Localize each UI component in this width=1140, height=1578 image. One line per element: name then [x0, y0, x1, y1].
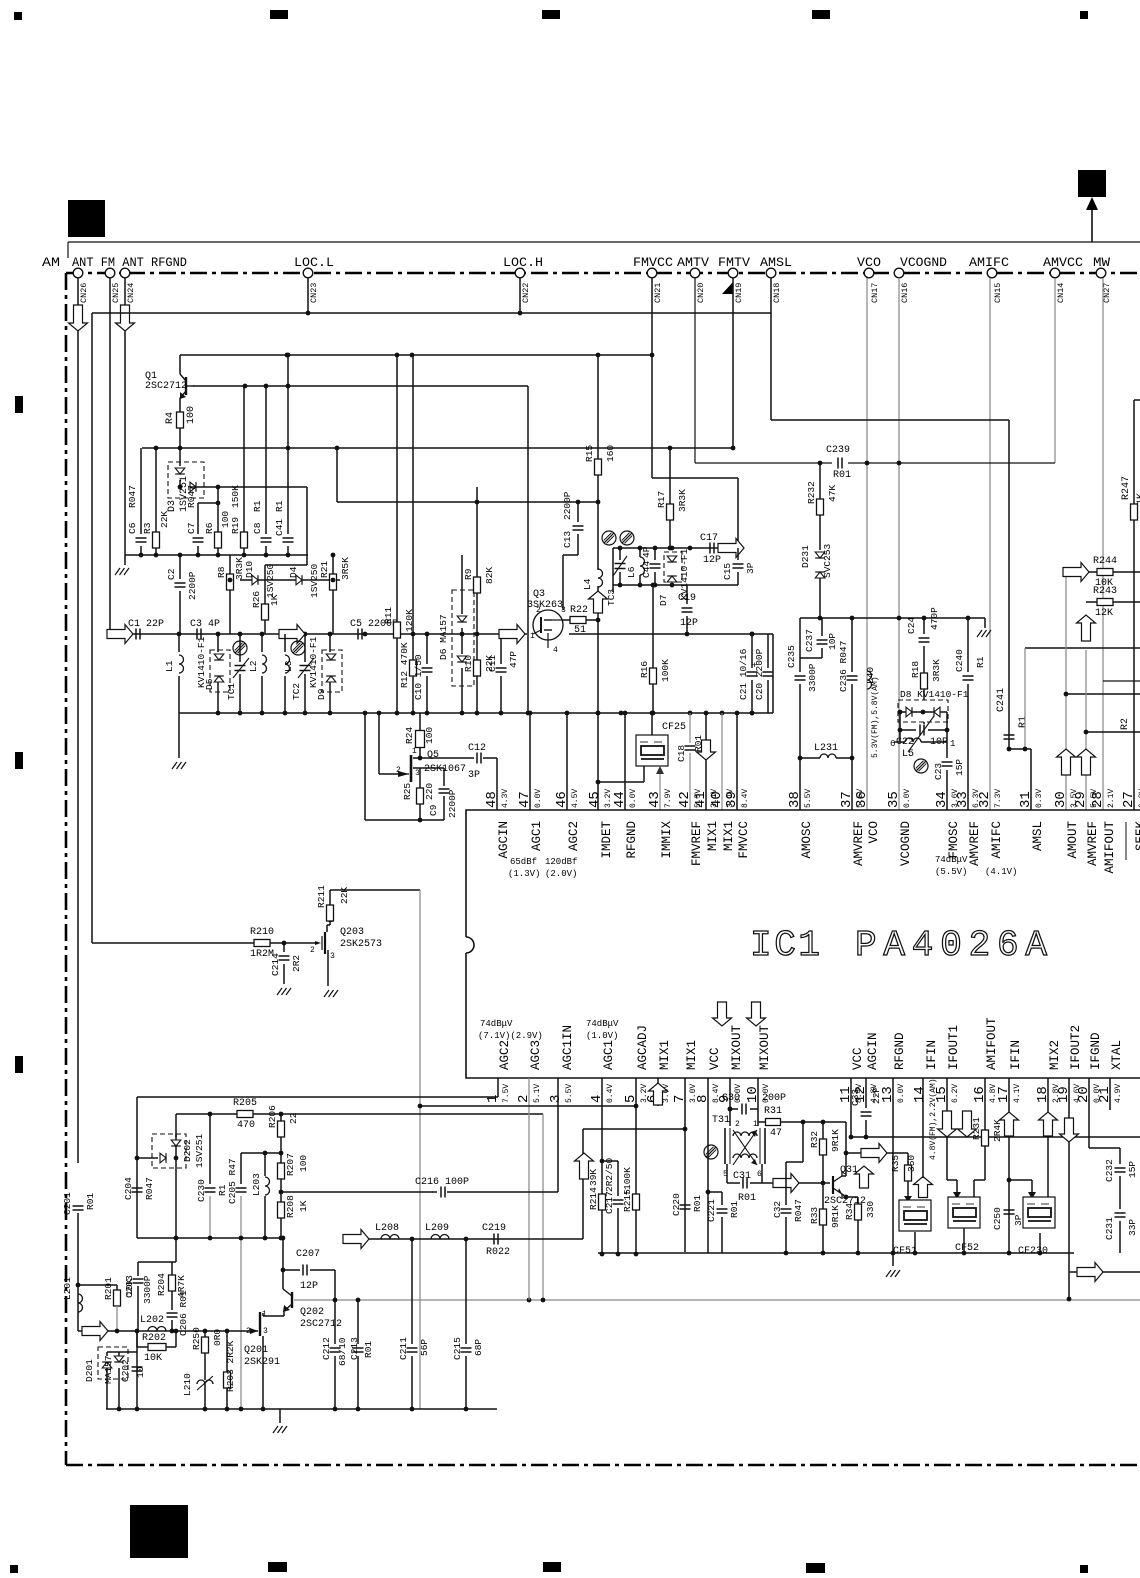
AM osc bus y618 [800, 617, 985, 619]
capacitor C41 [287, 355, 289, 534]
wire x365 down [364, 713, 366, 820]
svg-text:R21: R21 [319, 561, 330, 578]
svg-text:1K: 1K [298, 1200, 309, 1212]
wire pin40 [721, 713, 723, 810]
svg-text:R19: R19 [230, 517, 241, 534]
connector CN21 [647, 268, 657, 278]
svg-text:22P: 22P [871, 1087, 882, 1104]
svg-text:3: 3 [263, 1327, 268, 1336]
wire y681 right [1103, 680, 1140, 682]
svg-text:L231: L231 [814, 743, 838, 754]
svg-text:IFOUT1: IFOUT1 [947, 1025, 961, 1070]
svg-text:5.3V(FM),5.8V(AM): 5.3V(FM),5.8V(AM) [871, 676, 880, 758]
inductor L210 [197, 1380, 213, 1384]
wire pin8 down [707, 1078, 709, 1253]
connector CN15 [987, 268, 997, 278]
page locator square top-right [1078, 170, 1106, 197]
capacitor C5 2200P [357, 629, 359, 640]
svg-text:C232: C232 [1104, 1159, 1115, 1182]
resistor R202 10K [136, 1331, 138, 1347]
wire y782 [598, 781, 644, 783]
resistor R211 22K [326, 925, 328, 932]
resistor R34 330 [857, 1197, 859, 1204]
svg-text:R1: R1 [252, 500, 263, 512]
svg-text:R203 2R2K: R203 2R2K [225, 1340, 236, 1392]
wire CN19 down [732, 278, 734, 448]
svg-text:R16: R16 [639, 661, 650, 678]
svg-text:C17: C17 [700, 533, 718, 544]
svg-text:74dBμV: 74dBμV [935, 855, 968, 865]
Q31 collector [842, 1175, 846, 1177]
svg-text:C12: C12 [468, 743, 486, 754]
connector CN24 [120, 268, 130, 278]
registration mark left 3 [15, 1056, 23, 1073]
resistor R22 51 [563, 619, 570, 621]
svg-text:4: 4 [553, 646, 558, 655]
T31 bottom pins [726, 1164, 728, 1183]
resistor R16 100K [652, 585, 654, 668]
tie wire y1262 [138, 1261, 176, 1263]
trimmer arrow through C22 [908, 716, 934, 752]
wire CN25 down to FM input [109, 278, 111, 634]
svg-text:FMOSC: FMOSC [947, 821, 961, 859]
capacitor C236 R047 [851, 618, 853, 672]
svg-text:3: 3 [330, 952, 335, 961]
svg-text:28: 28 [1090, 791, 1106, 808]
filter CF52 [948, 1197, 980, 1228]
CF52 bottom stub [963, 1228, 965, 1253]
CF25 out [643, 766, 645, 782]
svg-text:(1.0V): (1.0V) [586, 1031, 618, 1041]
svg-text:C3 4P: C3 4P [190, 619, 220, 630]
svg-text:CN22: CN22 [521, 283, 531, 303]
filter CF51 [899, 1200, 931, 1231]
flow arrow on CN24 wire [116, 305, 135, 331]
dash-dot border bottom [66, 1464, 1140, 1467]
svg-text:C9: C9 [428, 804, 439, 816]
inductor L208 [381, 1235, 399, 1240]
svg-text:34: 34 [934, 791, 950, 808]
flow arrow C17 out [718, 539, 744, 558]
IC1 box [466, 810, 1140, 1078]
svg-text:(2.0V): (2.0V) [545, 869, 577, 879]
no-connect mark 2 [291, 641, 305, 655]
svg-text:VCC: VCC [708, 1047, 722, 1070]
resistor R206 22 [280, 1114, 282, 1121]
svg-text:12P: 12P [300, 1281, 318, 1292]
svg-text:R01: R01 [833, 470, 851, 481]
page locator square bottom-left [130, 1505, 188, 1558]
svg-text:2: 2 [735, 1120, 740, 1129]
svg-text:XTAL: XTAL [1110, 1040, 1124, 1070]
wire AM ant C201 [73, 1205, 84, 1207]
capacitor C215 68P [465, 1239, 467, 1344]
svg-text:CN20: CN20 [696, 283, 706, 303]
resistor R215 100K [633, 1194, 640, 1210]
wire CN22 down [519, 278, 521, 313]
filter CF25 [651, 713, 653, 735]
svg-text:CN23: CN23 [309, 283, 319, 303]
capacitor C207 12P [282, 1238, 284, 1270]
svg-text:C2: C2 [166, 568, 177, 580]
svg-text:3R3K: 3R3K [677, 489, 688, 512]
svg-text:6.2V: 6.2V [951, 1084, 960, 1103]
wire y1285 [78, 1284, 117, 1286]
svg-text:1SV251: 1SV251 [194, 1133, 205, 1168]
svg-text:31: 31 [1018, 791, 1034, 808]
svg-text:74dBμV: 74dBμV [480, 1019, 513, 1029]
diode D10 1SV250 [252, 575, 258, 585]
svg-text:9R1K: 9R1K [830, 1205, 841, 1228]
svg-text:CN17: CN17 [870, 283, 880, 303]
svg-text:(7.1V)(2.9V): (7.1V)(2.9V) [478, 1031, 543, 1041]
svg-text:C30: C30 [722, 1093, 740, 1104]
svg-text:R047: R047 [127, 485, 138, 508]
resistor R203 2R2K [226, 1331, 228, 1372]
svg-text:MIX1: MIX1 [658, 1040, 672, 1070]
svg-text:10P: 10P [827, 633, 838, 650]
svg-text:22K: 22K [339, 887, 350, 904]
svg-text:46: 46 [554, 791, 570, 808]
svg-text:FMVREF: FMVREF [690, 821, 704, 866]
svg-text:D9: D9 [316, 688, 327, 700]
resistor R201 10K [116, 1285, 118, 1290]
resistor R17 [669, 448, 671, 504]
capacitor C214 2R2 [283, 943, 285, 952]
svg-text:470P: 470P [929, 607, 940, 630]
svg-text:R201: R201 [103, 1277, 114, 1300]
svg-text:MIX1: MIX1 [706, 821, 720, 851]
wire x176 down [175, 1114, 177, 1262]
svg-text:FMVCC: FMVCC [737, 821, 751, 859]
svg-text:L203: L203 [251, 1173, 262, 1196]
connector CN26 [73, 268, 83, 278]
svg-text:1K: 1K [269, 594, 280, 606]
resistor R204 4R7K [171, 1262, 173, 1275]
svg-text:AMOSC: AMOSC [800, 821, 814, 859]
svg-text:40: 40 [709, 791, 725, 808]
electrolytic C217 2R2/50 [602, 1160, 618, 1162]
no-connect mark 3 [602, 531, 616, 545]
inductor L40 [867, 671, 872, 689]
svg-text:L208: L208 [375, 1223, 399, 1234]
overline for SEEK pin27 [1125, 822, 1127, 860]
wire x543 down [542, 1114, 544, 1300]
capacitor C219 R022 [493, 1234, 495, 1245]
diode box D6 MA157 [452, 590, 474, 686]
wire D3 out y487 [190, 486, 307, 488]
resistor R3 [155, 448, 157, 532]
svg-text:3P: 3P [1013, 1214, 1024, 1226]
capacitor C22 10P [899, 712, 901, 730]
capacitor C206 R01 [167, 1312, 178, 1314]
svg-text:35: 35 [886, 791, 902, 808]
svg-text:LOC.H: LOC.H [503, 255, 543, 270]
resistor R243 [1086, 601, 1097, 603]
svg-text:14: 14 [912, 1086, 928, 1103]
svg-text:R2: R2 [1120, 718, 1131, 730]
svg-text:Q3: Q3 [533, 589, 545, 600]
wire x652 to y478 [651, 355, 653, 478]
capacitor C231 33P [1115, 1212, 1126, 1214]
resistor R11 [396, 355, 398, 622]
FET Q203 2SK2573 [324, 932, 326, 954]
wire x528 down [527, 386, 529, 712]
dash-dot border top / connector bus [66, 272, 1140, 275]
svg-text:CN25: CN25 [111, 283, 121, 303]
Q203 source ground [327, 950, 329, 986]
no-connect mark T31 [704, 1145, 718, 1159]
capacitor C235 3300P [799, 618, 801, 672]
svg-text:2R4K: 2R4K [992, 1119, 1003, 1142]
svg-text:47P: 47P [508, 651, 519, 668]
flow arrow into Q3 [499, 625, 525, 644]
svg-text:R25: R25 [402, 783, 413, 800]
svg-text:R24: R24 [404, 727, 415, 744]
svg-text:7.9V: 7.9V [664, 789, 673, 808]
bottom box bus y1238 [137, 1237, 281, 1239]
svg-text:33P: 33P [1127, 1219, 1138, 1236]
svg-text:C239: C239 [826, 445, 850, 456]
wire R247 from top [1134, 399, 1140, 401]
connector CN25 [105, 268, 115, 278]
svg-text:C31: C31 [733, 1171, 751, 1182]
svg-text:SEEK: SEEK [1134, 821, 1140, 852]
ground bus y1253 [598, 1252, 1074, 1254]
svg-text:R3: R3 [142, 522, 153, 534]
flow arrow near R214 [575, 1153, 594, 1179]
svg-text:C205 R47: C205 R47 [227, 1158, 238, 1204]
resistor R207 100 [280, 1153, 282, 1163]
svg-text:C217: C217 [604, 1191, 615, 1214]
wire Q1 base y386 [193, 385, 528, 387]
wire CN15 down to pin32 [989, 278, 991, 810]
svg-text:C41: C41 [274, 519, 285, 536]
svg-text:R243: R243 [1093, 586, 1117, 597]
svg-text:(4.1V): (4.1V) [985, 867, 1017, 877]
svg-text:82K: 82K [484, 567, 495, 584]
svg-text:100: 100 [298, 1155, 309, 1172]
svg-text:CF52: CF52 [955, 1243, 979, 1254]
svg-text:RFGND: RFGND [625, 821, 639, 859]
svg-text:C240: C240 [954, 649, 965, 672]
svg-text:C11: C11 [487, 655, 498, 672]
svg-text:AGCIN: AGCIN [866, 1032, 880, 1070]
capacitor C202 10 [132, 1366, 143, 1368]
svg-text:200P: 200P [762, 1093, 786, 1104]
svg-text:Q202: Q202 [300, 1307, 324, 1318]
svg-text:4.8V(FM),2.2V(AM): 4.8V(FM),2.2V(AM) [929, 1078, 938, 1160]
svg-text:30: 30 [1053, 791, 1069, 808]
flow arrow IF bus [343, 1230, 369, 1249]
svg-text:AMIFC: AMIFC [990, 821, 1004, 859]
connector CN18 [766, 268, 776, 278]
wire y478 [652, 477, 738, 479]
connector CN16 [894, 268, 904, 278]
varactor D5 KV1410-F1 [210, 650, 230, 692]
svg-text:38: 38 [787, 791, 803, 808]
svg-text:L201: L201 [62, 1277, 73, 1300]
svg-text:2SC2712: 2SC2712 [145, 381, 187, 392]
svg-text:C21 10/16: C21 10/16 [738, 648, 749, 700]
svg-text:3SK263: 3SK263 [527, 600, 563, 611]
capacitor C2 [179, 555, 181, 579]
FET Q201 2SK291 [259, 1312, 261, 1336]
flow arrow pin19 [1060, 1118, 1079, 1142]
svg-text:C32: C32 [772, 1201, 783, 1218]
svg-text:CF230: CF230 [1018, 1246, 1048, 1257]
capacitor C32 R047 [785, 1162, 787, 1205]
wire x738 down [737, 478, 739, 548]
wire pin20 jog [1089, 1147, 1120, 1149]
svg-text:AMIFOUT: AMIFOUT [985, 1017, 999, 1070]
svg-text:AGC2: AGC2 [567, 821, 581, 851]
flow arrow on CN26 wire [69, 305, 88, 331]
no-connect mark 1 [233, 641, 247, 655]
svg-text:C1 22P: C1 22P [128, 619, 164, 630]
svg-text:2200P: 2200P [562, 491, 573, 520]
svg-text:R202: R202 [142, 1333, 166, 1344]
inductor L1 [178, 634, 180, 652]
L1 ground stub [178, 713, 180, 758]
svg-text:D6 MA157: D6 MA157 [438, 614, 449, 660]
wire pin5 down [635, 1078, 637, 1254]
svg-text:45: 45 [587, 791, 603, 808]
wire y1153 arrow right [846, 1152, 908, 1154]
resistor R19 [243, 386, 245, 532]
wire pin17 [1008, 1078, 1010, 1253]
svg-text:L3: L3 [283, 660, 294, 672]
bus Q1 collector y355 [180, 354, 652, 356]
resistor R232 47K [817, 499, 824, 515]
svg-text:CN26: CN26 [79, 283, 89, 303]
wire x1009 down to C241 [1008, 420, 1010, 749]
inductor L5 [894, 741, 905, 743]
svg-text:D3: D3 [167, 500, 178, 512]
svg-text:C214: C214 [270, 953, 281, 976]
capacitor C1 22P [135, 629, 137, 640]
varactor D8 KV1410-F1 [898, 700, 948, 722]
svg-text:10K: 10K [124, 1279, 135, 1296]
svg-text:C213: C213 [349, 1337, 360, 1360]
electrolytic C21 10/16 [751, 680, 753, 713]
connector CN17 [864, 268, 874, 278]
svg-text:68P: 68P [473, 1339, 484, 1356]
svg-text:AMVCC: AMVCC [1043, 255, 1083, 270]
svg-text:AMIFC: AMIFC [969, 255, 1009, 270]
svg-text:27: 27 [1121, 791, 1137, 808]
svg-text:1: 1 [753, 1120, 758, 1129]
svg-text:ANT FM ANT RFGND: ANT FM ANT RFGND [72, 255, 187, 270]
svg-text:0.3V: 0.3V [1035, 789, 1044, 808]
svg-text:1: 1 [530, 632, 535, 641]
svg-text:C215: C215 [452, 1337, 463, 1360]
resistor R247 [1131, 504, 1138, 520]
svg-text:44: 44 [612, 791, 628, 808]
wire x137 to D201 [136, 1331, 138, 1409]
wire pin44 [624, 713, 626, 810]
svg-text:22K: 22K [159, 511, 170, 528]
svg-text:AMTV: AMTV [677, 255, 709, 270]
wire pin6 arrow [657, 1078, 659, 1106]
wire y732 right [1086, 731, 1140, 733]
svg-text:R15: R15 [584, 445, 595, 462]
CF51 bottom stub [914, 1232, 916, 1253]
wire y1137 right [851, 1136, 1140, 1138]
wire y420 AMSL route [771, 419, 1009, 421]
svg-text:39K: 39K [588, 1169, 599, 1186]
svg-text:R11: R11 [383, 607, 394, 624]
svg-text:D4: D4 [288, 566, 299, 578]
wire pin14 down to CF51 out [922, 1078, 924, 1178]
svg-text:470: 470 [237, 1120, 255, 1131]
resistor R208 1K [280, 1192, 282, 1202]
svg-text:C19: C19 [678, 593, 696, 604]
inductor L231 [800, 757, 820, 759]
wire pin37 upper [851, 617, 853, 619]
svg-text:33: 33 [955, 791, 971, 808]
svg-text:AM: AM [42, 255, 60, 270]
connector CN19 [728, 268, 738, 278]
bus AMTV y463 [695, 462, 832, 464]
svg-text:LOC.L: LOC.L [294, 255, 334, 270]
wire y694 right [1066, 693, 1140, 695]
svg-text:L202: L202 [140, 1315, 164, 1326]
registration mark bottom-right [1080, 1565, 1088, 1573]
top frame line [68, 241, 1140, 243]
wire pin3 down to C216 [557, 1078, 559, 1192]
capacitor C7 [197, 503, 199, 534]
svg-text:D201: D201 [84, 1359, 95, 1382]
svg-text:2200P: 2200P [447, 789, 458, 818]
wire gate bus y943 [92, 942, 254, 944]
wire y648 right [1025, 647, 1140, 649]
svg-text:C201: C201 [62, 1192, 73, 1215]
flow arrow FM input [107, 625, 133, 644]
svg-text:100: 100 [186, 406, 197, 424]
svg-text:3R5K: 3R5K [340, 557, 351, 580]
tank top y548 [613, 547, 738, 549]
svg-text:AMVREF: AMVREF [1086, 821, 1100, 866]
svg-text:3P: 3P [745, 562, 756, 574]
svg-text:R206: R206 [267, 1105, 278, 1128]
svg-text:VCC: VCC [851, 1047, 865, 1070]
svg-text:MA157: MA157 [103, 1355, 114, 1384]
svg-text:65dBf: 65dBf [510, 857, 537, 867]
wire pin43 thin arrow [659, 772, 661, 810]
wire y1153 [241, 1152, 281, 1154]
svg-text:29: 29 [1073, 791, 1089, 808]
capacitor C211 56P [411, 1239, 413, 1344]
svg-text:0.4V: 0.4V [606, 1084, 615, 1103]
transistor Q202 2SC2712 [291, 1292, 293, 1308]
bottom wire y820 [365, 819, 444, 821]
svg-text:47K: 47K [827, 485, 838, 502]
svg-text:3P: 3P [468, 770, 480, 781]
wire R232 D231 from y463 [819, 463, 821, 499]
svg-text:12P: 12P [703, 555, 721, 566]
svg-text:0.0V: 0.0V [629, 789, 638, 808]
bus R205 y1114 [176, 1113, 543, 1115]
ground at cluster [124, 555, 126, 565]
svg-text:R1: R1 [975, 656, 986, 668]
svg-text:CN15: CN15 [993, 283, 1003, 303]
AM bus y1331 [78, 1330, 258, 1332]
resistor R33 9R1K [822, 1183, 824, 1209]
svg-text:KV1410-F1: KV1410-F1 [308, 636, 319, 688]
flow arrow L4 [597, 586, 599, 620]
svg-text:7.5V: 7.5V [502, 1084, 511, 1103]
